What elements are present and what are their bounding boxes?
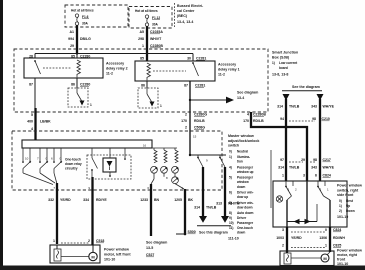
svg-text:C210: C210 xyxy=(322,117,330,121)
svg-text:TN/LB: TN/LB xyxy=(289,105,300,109)
fuse F1.12 30A xyxy=(145,15,160,26)
svg-text:30A: 30A xyxy=(152,22,159,26)
svg-text:C2280: C2280 xyxy=(80,83,90,87)
svg-text:343: 343 xyxy=(311,105,317,109)
svg-text:RD/LB: RD/LB xyxy=(253,119,264,123)
passenger switch A xyxy=(197,155,199,157)
svg-text:F1.6: F1.6 xyxy=(82,15,89,19)
svg-text:994: 994 xyxy=(68,37,74,41)
svg-text:101-10: 101-10 xyxy=(337,215,348,219)
relay2 output wire to master switch xyxy=(34,108,36,140)
connector C518 dashes xyxy=(61,242,89,244)
svg-text:RD/LB: RD/LB xyxy=(194,119,205,123)
svg-text:15: 15 xyxy=(193,135,197,139)
svg-text:adjust/lock/unlock: adjust/lock/unlock xyxy=(228,139,259,143)
svg-text:Hot at all times: Hot at all times xyxy=(135,9,158,13)
svg-text:Low current: Low current xyxy=(279,61,298,65)
svg-text:C1035A: C1035A xyxy=(150,30,163,34)
svg-text:Accessory: Accessory xyxy=(218,63,236,67)
svg-text:2: 2 xyxy=(185,126,187,130)
svg-text:Driver: Driver xyxy=(237,216,247,220)
wire TN/LB right column xyxy=(285,99,287,181)
svg-text:C2280G: C2280G xyxy=(194,113,207,117)
wire from fuse F1.6 xyxy=(76,25,78,53)
left motor label xyxy=(104,248,131,262)
svg-text:Power window: Power window xyxy=(337,249,362,253)
fuse F1.6 30A xyxy=(75,14,89,25)
svg-text:C508G: C508G xyxy=(194,126,205,130)
svg-text:343: 343 xyxy=(311,166,317,170)
svg-text:Accessory: Accessory xyxy=(106,62,124,66)
svg-text:101-10: 101-10 xyxy=(104,258,115,262)
svg-text:Bussed Electri-: Bussed Electri- xyxy=(177,4,204,8)
right switch contact B xyxy=(317,181,329,196)
passenger feed bus xyxy=(190,154,226,156)
bus bar extension xyxy=(152,147,177,149)
contact circle 4 xyxy=(166,176,178,184)
svg-text:298: 298 xyxy=(138,37,144,41)
svg-text:16: 16 xyxy=(143,144,147,148)
svg-text:10): 10) xyxy=(229,221,234,225)
pin 85 stub relay 2 xyxy=(76,54,78,59)
svg-text:0): 0) xyxy=(229,150,232,154)
svg-text:6: 6 xyxy=(315,174,317,178)
off-page arrow down right xyxy=(221,216,229,223)
svg-text:LB/BK: LB/BK xyxy=(40,120,51,124)
svg-text:YE/RD: YE/RD xyxy=(291,236,302,240)
splice S500 xyxy=(184,233,187,236)
pin 28 stub relay 2 xyxy=(34,54,36,59)
svg-text:switch: switch xyxy=(228,144,239,148)
svg-text:87: 87 xyxy=(184,84,188,88)
wire from fuse F1.12 xyxy=(146,26,148,61)
svg-text:C825: C825 xyxy=(333,244,341,248)
svg-text:BK: BK xyxy=(188,198,194,202)
wire WH/YE right column xyxy=(319,99,321,181)
svg-text:97: 97 xyxy=(280,158,284,162)
relay 1 pin 86 stub xyxy=(146,81,148,88)
svg-text:1233: 1233 xyxy=(140,198,148,202)
passenger switch B xyxy=(219,155,221,157)
svg-text:TN/LB: TN/LB xyxy=(206,206,217,210)
svg-text:See the diagram: See the diagram xyxy=(292,85,320,89)
svg-text:tion: tion xyxy=(237,160,243,164)
ground wire to splice xyxy=(184,189,186,234)
svg-text:1003: 1003 xyxy=(276,236,284,240)
svg-text:RD/YE: RD/YE xyxy=(96,198,107,202)
svg-text:314: 314 xyxy=(277,105,283,109)
right switch contact A xyxy=(285,181,297,196)
svg-text:dow up: dow up xyxy=(237,195,248,199)
svg-text:2: 2 xyxy=(88,239,90,243)
svg-text:dow down: dow down xyxy=(237,205,253,209)
master window switch dashed box xyxy=(12,131,222,190)
svg-text:Power window: Power window xyxy=(104,248,129,252)
svg-text:1306: 1306 xyxy=(319,236,327,240)
svg-text:board: board xyxy=(279,66,288,70)
svg-text:TN/LB: TN/LB xyxy=(289,166,300,170)
see this diagram bracket bottom xyxy=(197,225,231,227)
svg-text:A5: A5 xyxy=(140,30,145,34)
power window motor left front box xyxy=(50,245,100,263)
BEC fuse box 1 (dashed) xyxy=(65,5,128,27)
off-page arrow right xyxy=(226,97,234,104)
svg-text:Up: Up xyxy=(346,204,350,208)
right motor wire 1003 xyxy=(286,227,288,253)
Smart Junction Box dashed outline xyxy=(14,49,268,112)
svg-text:30A: 30A xyxy=(82,21,89,25)
relay coil winding 2 xyxy=(164,150,167,163)
svg-text:85: 85 xyxy=(140,57,144,61)
svg-text:C2281: C2281 xyxy=(195,84,205,88)
power window switch right front box xyxy=(273,181,347,227)
relay 1 pin 87 wire xyxy=(189,81,191,155)
svg-text:1): 1) xyxy=(272,61,275,65)
svg-text:One-touch: One-touch xyxy=(237,226,253,230)
svg-text:switch, right: switch, right xyxy=(337,188,359,192)
svg-text:See diagram: See diagram xyxy=(146,241,167,245)
Bussed Electrical Center label xyxy=(175,3,204,27)
driver up wire to motor xyxy=(56,183,58,244)
svg-text:1): 1) xyxy=(339,204,342,208)
svg-text:98: 98 xyxy=(312,117,316,121)
relay 1 coil winding xyxy=(147,63,150,80)
pin 30 stub relay 1 xyxy=(192,54,194,62)
contact circle 3 xyxy=(172,166,179,173)
accessory delay relay 1 box xyxy=(135,61,215,81)
one-touch label xyxy=(65,158,82,171)
svg-text:2: 2 xyxy=(185,113,187,117)
motor M right xyxy=(321,254,329,262)
master switch legend xyxy=(228,134,259,241)
off-page label lower middle xyxy=(146,241,167,258)
svg-text:circuitry: circuitry xyxy=(65,167,78,171)
relay coil winding 3 xyxy=(175,150,178,163)
BEC fuse box 2 (dashed) xyxy=(129,7,172,29)
rear window feed wire 313 xyxy=(224,167,226,216)
svg-text:WH/YE: WH/YE xyxy=(323,105,335,109)
svg-text:4: 4 xyxy=(247,113,249,117)
svg-text:400: 400 xyxy=(27,120,33,124)
contact circle 1 xyxy=(151,166,158,173)
svg-text:101-10: 101-10 xyxy=(337,262,348,266)
svg-text:C824: C824 xyxy=(333,228,341,232)
svg-text:11-2: 11-2 xyxy=(218,73,225,77)
circuit breaker right motor xyxy=(284,253,291,264)
relay 2 pin 86 stub xyxy=(76,78,78,88)
svg-text:314: 314 xyxy=(194,206,200,210)
svg-text:94: 94 xyxy=(280,117,284,121)
svg-text:5: 5 xyxy=(31,113,33,117)
svg-text:29: 29 xyxy=(70,44,74,48)
svg-text:Illumina-: Illumina- xyxy=(237,155,250,159)
diode bus in right switch xyxy=(287,221,317,223)
node relay1 output branch xyxy=(189,99,191,101)
svg-text:See diagram: See diagram xyxy=(237,91,258,95)
rear window feed wire 314 xyxy=(202,167,204,216)
supply bus wire inside SJB xyxy=(35,53,193,55)
svg-text:9): 9) xyxy=(229,216,232,220)
svg-text:313: 313 xyxy=(216,202,222,206)
transistor switch symbol left xyxy=(76,88,78,93)
svg-text:C2281: C2281 xyxy=(196,57,206,61)
svg-text:Passenger: Passenger xyxy=(237,165,254,169)
svg-text:11-2: 11-2 xyxy=(106,72,113,76)
driver down wire to motor xyxy=(91,177,93,245)
relay 1 contact blade xyxy=(193,63,199,76)
motor M left xyxy=(89,252,97,260)
svg-text:334: 334 xyxy=(83,198,89,202)
svg-text:window: window xyxy=(236,180,249,184)
svg-text:C518: C518 xyxy=(96,239,104,243)
svg-text:1: 1 xyxy=(142,44,144,48)
svg-text:down: down xyxy=(237,185,245,189)
svg-text:3: 3 xyxy=(282,228,284,232)
svg-text:C2280B: C2280B xyxy=(150,44,163,48)
svg-text:98: 98 xyxy=(313,158,317,162)
scan border left bar xyxy=(0,0,3,270)
svg-text:170: 170 xyxy=(243,119,249,123)
svg-text:2): 2) xyxy=(339,209,342,213)
svg-text:C2280B: C2280B xyxy=(253,113,266,117)
contact circle 2 xyxy=(161,166,168,173)
relay 1 name label xyxy=(218,63,240,77)
svg-text:WH/YE: WH/YE xyxy=(228,202,240,206)
circle interconnect wires xyxy=(153,173,155,179)
relay 2 contact blade xyxy=(35,61,41,74)
svg-text:1: 1 xyxy=(160,104,162,108)
svg-text:delay relay 2: delay relay 2 xyxy=(106,67,128,71)
svg-text:C527: C527 xyxy=(146,253,154,257)
svg-text:170: 170 xyxy=(181,119,187,123)
svg-text:10: 10 xyxy=(25,157,29,161)
svg-text:S500: S500 xyxy=(188,230,196,234)
svg-text:1205: 1205 xyxy=(174,198,182,202)
illumination lamp right switch xyxy=(276,196,282,202)
svg-text:Box (SJB): Box (SJB) xyxy=(272,56,290,60)
svg-text:29: 29 xyxy=(301,158,305,162)
svg-text:3: 3 xyxy=(303,174,305,178)
svg-text:(BEC): (BEC) xyxy=(177,14,188,18)
svg-text:Smart Junction: Smart Junction xyxy=(272,51,298,55)
relay 1 coil link (dashed) xyxy=(153,70,186,72)
svg-text:13-4, 13-4: 13-4, 13-4 xyxy=(177,20,193,24)
svg-text:F1.12: F1.12 xyxy=(152,16,160,20)
svg-text:DB/LG: DB/LG xyxy=(80,37,91,41)
transistor switch symbol right xyxy=(146,88,148,94)
SJB label xyxy=(272,51,298,77)
off-page arrow down left xyxy=(199,216,207,223)
driver switch S1 xyxy=(22,148,31,173)
svg-text:Neutral: Neutral xyxy=(237,150,248,154)
svg-text:86: 86 xyxy=(71,83,75,87)
right switch internal wires xyxy=(287,196,292,200)
svg-text:Power window: Power window xyxy=(337,184,362,188)
relay 2 name label xyxy=(106,62,128,76)
svg-text:Hot at all times: Hot at all times xyxy=(71,9,94,13)
svg-text:See this diagram: See this diagram xyxy=(199,231,228,235)
svg-text:Down: Down xyxy=(346,209,355,213)
down arrow into wire 314 xyxy=(283,94,290,101)
svg-text:One-touch: One-touch xyxy=(65,158,81,162)
svg-text:Rest: Rest xyxy=(346,199,354,203)
relay 2 pin 87 wire xyxy=(34,78,36,108)
svg-text:1: 1 xyxy=(90,103,92,107)
svg-text:11): 11) xyxy=(229,226,233,230)
svg-text:0): 0) xyxy=(339,199,342,203)
relay 2 coil winding xyxy=(77,60,80,77)
one-touch sense wire xyxy=(150,184,152,236)
relay 2 coil link (dashed) xyxy=(43,67,71,69)
svg-text:30: 30 xyxy=(187,57,191,61)
svg-text:0: 0 xyxy=(325,228,327,232)
svg-text:4: 4 xyxy=(31,127,33,131)
svg-text:2: 2 xyxy=(282,244,284,248)
one-touch relay dashed box xyxy=(87,155,131,179)
one-touch switch xyxy=(91,148,93,158)
svg-text:Master window: Master window xyxy=(228,134,254,138)
svg-text:4): 4) xyxy=(229,165,232,169)
svg-text:86: 86 xyxy=(141,84,145,88)
svg-text:BN: BN xyxy=(154,198,160,202)
svg-text:window up: window up xyxy=(236,170,254,174)
svg-text:motor, right: motor, right xyxy=(337,253,358,257)
driver switch S2 xyxy=(37,148,48,173)
svg-text:6): 6) xyxy=(229,191,232,195)
svg-text:8): 8) xyxy=(229,211,232,215)
svg-text:1: 1 xyxy=(325,244,327,248)
svg-text:YE/RD: YE/RD xyxy=(60,198,71,202)
circuit breaker left motor xyxy=(54,249,61,261)
svg-text:87: 87 xyxy=(29,83,33,87)
node junction fuse1/bus xyxy=(76,52,78,54)
svg-text:WH/YE: WH/YE xyxy=(323,166,335,170)
svg-text:5): 5) xyxy=(229,176,232,180)
one-touch diode block xyxy=(103,158,116,172)
right switch legend xyxy=(337,184,362,220)
svg-text:C824: C824 xyxy=(323,174,331,178)
thick wire SJB to right switch xyxy=(251,112,307,181)
svg-text:Passenger: Passenger xyxy=(237,221,254,225)
svg-text:1: 1 xyxy=(53,239,55,243)
svg-text:A1: A1 xyxy=(70,30,75,34)
accessory delay relay 2 box xyxy=(24,58,103,78)
svg-text:Driver win-: Driver win- xyxy=(237,191,253,195)
svg-text:Auto down: Auto down xyxy=(237,211,254,215)
relay coil winding 1 xyxy=(154,150,157,163)
svg-text:down: down xyxy=(237,230,245,234)
svg-text:motor, left front: motor, left front xyxy=(104,253,131,257)
svg-text:332: 332 xyxy=(48,198,54,202)
scan border bottom bar xyxy=(0,266,365,270)
legend rule line xyxy=(270,150,272,208)
svg-text:side front: side front xyxy=(337,193,354,197)
svg-text:13-5: 13-5 xyxy=(146,246,153,250)
wire branch to off-page arrow xyxy=(190,99,226,101)
svg-text:13-4: 13-4 xyxy=(237,96,244,100)
SJB driver transistor box right (dashed) xyxy=(138,88,158,108)
SJB driver transistor box left (dashed) xyxy=(68,88,88,107)
svg-text:delay relay 1: delay relay 1 xyxy=(218,68,240,72)
svg-text:RD/WH: RD/WH xyxy=(333,236,345,240)
svg-text:111-10: 111-10 xyxy=(228,237,239,241)
driver switch S3 xyxy=(51,148,62,173)
power window motor right front box xyxy=(280,251,334,266)
svg-text:C217: C217 xyxy=(323,158,331,162)
svg-text:cal Center: cal Center xyxy=(177,9,195,13)
svg-text:1: 1 xyxy=(282,174,284,178)
svg-text:13-8, 13-8: 13-8, 13-8 xyxy=(272,73,288,77)
svg-text:1): 1) xyxy=(229,155,232,159)
svg-text:314: 314 xyxy=(278,166,284,170)
right motor label xyxy=(337,249,362,266)
svg-text:down relay: down relay xyxy=(65,162,82,166)
right motor wire 1306 xyxy=(329,227,331,252)
svg-text:Passenger: Passenger xyxy=(237,176,254,180)
master switch supply bus bar xyxy=(22,140,152,148)
switch output merge wires xyxy=(23,173,53,185)
down arrow into wire 343 xyxy=(317,94,324,101)
svg-text:WH/VT: WH/VT xyxy=(150,37,162,41)
